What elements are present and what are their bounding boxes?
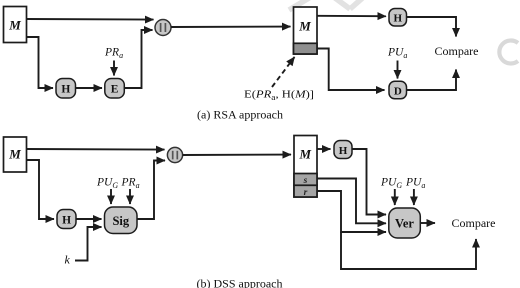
wire M to H (b right) (317, 148, 331, 150)
box M (a source) (4, 7, 27, 43)
svg-text:E(PRa, H(M)]: E(PRa, H(M)] (244, 90, 314, 103)
svg-text:(a) RSA approach: (a) RSA approach (197, 108, 283, 122)
wire k to Sig (75, 227, 102, 261)
svg-text:k: k (65, 253, 71, 267)
wire M to concat (b) top (27, 148, 165, 151)
svg-text:H: H (394, 13, 403, 25)
node concat (b) (167, 147, 182, 162)
arrow PRa to E (113, 61, 115, 76)
wire H to E (76, 87, 103, 89)
svg-text:E: E (111, 84, 119, 96)
wire Sig up to concat (b) (137, 161, 165, 220)
node concat (a) (155, 20, 171, 36)
node H (b) (57, 210, 76, 229)
node H (a) (56, 79, 76, 99)
wire H down to Compare (a) (407, 17, 457, 37)
wire H down to Ver (352, 149, 386, 215)
wire Ver to Compare (b) (420, 222, 435, 224)
wire H to Sig (76, 218, 102, 220)
svg-text:r: r (304, 188, 308, 198)
wire M down to H (a) (27, 37, 53, 88)
svg-text:(b) DSS approach: (b) DSS approach (197, 277, 283, 288)
wire M to H (a right) (317, 15, 386, 17)
wire r to Ver (317, 191, 386, 232)
dashed arrow to signature band (272, 57, 295, 87)
svg-text:M: M (298, 19, 311, 34)
svg-text:Ver: Ver (395, 217, 414, 231)
node H (b right) (334, 141, 352, 159)
node D (a) (389, 81, 407, 99)
watermark diagonal stroke top (289, 0, 367, 10)
wire r feedback to Compare (b) (341, 232, 476, 269)
svg-text:H: H (61, 84, 70, 96)
svg-text:H: H (339, 145, 348, 157)
node Ver (389, 208, 421, 238)
wire M down to H (b) (27, 160, 54, 219)
node E (a) (105, 79, 125, 99)
svg-text:M: M (299, 147, 312, 162)
box M (b received) with s and r bands (294, 136, 317, 198)
box M (b source) (4, 137, 27, 172)
wire M to concat (a) top (27, 18, 154, 21)
arrow PRa to Sig (129, 189, 131, 204)
svg-text:Compare: Compare (452, 216, 496, 230)
watermark letter C right (499, 40, 518, 63)
svg-text:H: H (62, 214, 71, 226)
arrow PUa to Ver (413, 189, 415, 205)
wire concat to M (a right) (171, 26, 291, 28)
arrow PUG to Sig (110, 189, 112, 204)
wire D up to Compare (a) (407, 70, 457, 91)
wire signature band to D (317, 49, 384, 91)
svg-text:s: s (303, 176, 308, 186)
box M (a received) with signature band (294, 7, 318, 54)
wire E up to concat (a) (124, 30, 152, 88)
svg-text:Compare: Compare (435, 44, 479, 58)
wire concat to M (b right) (183, 154, 291, 156)
svg-text:M: M (8, 18, 21, 33)
svg-text:M: M (8, 147, 21, 162)
arrow PUG to Ver (394, 189, 396, 205)
arrow PUa to D (397, 61, 399, 79)
svg-text:D: D (394, 85, 402, 97)
wire s to Ver (317, 179, 386, 224)
node Sig (105, 207, 138, 234)
svg-text:Sig: Sig (112, 214, 129, 228)
node H (a right) (389, 9, 407, 27)
